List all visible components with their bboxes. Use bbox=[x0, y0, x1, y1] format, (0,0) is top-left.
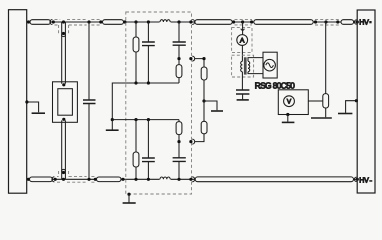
connector dot: HV lead lower bbox=[62, 171, 65, 174]
ammeter P1 bbox=[237, 35, 248, 46]
junction: top bus / HV lead bbox=[62, 20, 65, 23]
wire: filter column x179 lower bbox=[178, 120, 180, 180]
connector dot bbox=[314, 20, 317, 23]
ground G8 bbox=[282, 121, 295, 123]
oscillograph box bbox=[263, 52, 277, 78]
connector arc into enclosure bbox=[241, 29, 244, 31]
junction: R2 left bbox=[99, 20, 102, 23]
wire: ammeter to transformer bbox=[241, 45, 243, 61]
junction: top bus at supply bbox=[27, 20, 30, 23]
junction: bottom bus x179 bbox=[177, 178, 180, 181]
wire: cap to ground bbox=[242, 94, 244, 99]
junction: R2b right bbox=[121, 178, 124, 181]
wire: x204 column top bbox=[195, 59, 204, 101]
wire: supply ground tap bbox=[27, 102, 39, 112]
junction: rail x136 bbox=[134, 81, 137, 84]
junction: enclosure ground bbox=[127, 193, 130, 196]
junction: bottom bus x136 bbox=[134, 178, 137, 181]
junction: R3 right bbox=[232, 20, 235, 23]
shield (dashed) over ammeter tap bbox=[235, 19, 253, 25]
wire: secondary to oscillograph bbox=[248, 58, 263, 74]
junction: voltmeter ground bbox=[286, 113, 289, 116]
resistor R1b (bottom-left) bbox=[30, 177, 53, 182]
shield (dashed) top-right bbox=[315, 19, 341, 25]
voltmeter P2 bbox=[284, 96, 295, 107]
ground G7 bbox=[237, 99, 249, 101]
wire: ammeter drop bbox=[242, 22, 244, 35]
transformer T1 core bbox=[244, 57, 247, 74]
transformer T1 secondary bbox=[248, 61, 250, 72]
junction: tank wall bbox=[355, 99, 358, 102]
junction: top bus x136 bbox=[134, 20, 137, 23]
surge arrester inner body bbox=[58, 89, 73, 116]
HV measuring lead (double wire, upper) bbox=[62, 22, 66, 84]
surge arrester outer body bbox=[53, 82, 78, 123]
junction: arrester top bbox=[62, 83, 65, 86]
EMI filter enclosure (dashed) bbox=[126, 12, 192, 194]
resistor R9 (divider) bbox=[323, 94, 329, 108]
resistor Rd (filter, lower) bbox=[176, 122, 182, 135]
svg-text:A: A bbox=[240, 37, 245, 44]
junction: bottom bus x148 bbox=[147, 178, 150, 181]
ground G2 bbox=[106, 129, 119, 131]
inductor L1 (top bus) bbox=[160, 20, 171, 23]
wire: filter column x179 upper bbox=[178, 22, 180, 83]
wire: x204 ground branch bbox=[204, 101, 217, 110]
wire: enclosure ground stem bbox=[128, 194, 130, 202]
ground G4 bbox=[211, 110, 223, 112]
inductor L2 (bottom bus) bbox=[160, 177, 171, 180]
junction: top bus x179 bbox=[177, 20, 180, 23]
wire: bottom bus bbox=[27, 178, 358, 180]
wire: lower rail bbox=[112, 119, 179, 121]
resistor R2 (top) bbox=[103, 20, 124, 25]
transformer T1 primary bbox=[241, 61, 243, 72]
HV tank box (right) bbox=[357, 10, 375, 193]
ground G1 bbox=[32, 112, 45, 114]
capacitor C2 bbox=[236, 90, 249, 94]
connector: top-left shield plug bbox=[50, 20, 53, 25]
connector: filter exit top bus bbox=[192, 20, 195, 25]
connector dot bbox=[52, 20, 55, 23]
oscillograph dial bbox=[264, 59, 276, 71]
resistor R8 bbox=[201, 121, 207, 134]
wire: top bus bbox=[27, 21, 358, 23]
resistor Rc (filter, lower) bbox=[133, 152, 139, 167]
junction: divider tap bbox=[324, 20, 327, 23]
ground G6 bbox=[338, 113, 352, 115]
connector: filter exit bottom bus bbox=[192, 177, 195, 182]
junction: x204 top bbox=[202, 57, 205, 60]
resistor Ra (filter, upper) bbox=[133, 37, 139, 52]
svg-text:HV: HV bbox=[359, 177, 369, 184]
junction: bottom bus / HV lead bbox=[62, 178, 65, 181]
resistor R1 (top-left) bbox=[30, 20, 51, 25]
junction: R2 right / filter entry bbox=[123, 20, 126, 23]
connector: HV- plug bbox=[354, 177, 356, 181]
junction: top bus x148 bbox=[147, 20, 150, 23]
connector dot bbox=[189, 57, 192, 60]
resistor R7 bbox=[201, 67, 207, 80]
connector: bottom-left shield plug bbox=[52, 177, 55, 182]
resistor Rb (filter, upper) bbox=[176, 65, 182, 78]
wire: tank ground tap bbox=[346, 101, 358, 113]
junction: R2b left bbox=[94, 178, 97, 181]
connector: HV+ plug bbox=[354, 20, 356, 24]
voltmeter box bbox=[278, 90, 308, 115]
enclosure (dashed): ammeter bbox=[232, 28, 252, 53]
shield (dashed) around top-left bus bbox=[55, 19, 101, 33]
junction: lower rail x136 bbox=[134, 118, 137, 121]
wire: ground stem x112 bbox=[111, 120, 113, 130]
wire: filter column Cc lower bbox=[147, 120, 149, 180]
HV supply box (left) bbox=[9, 10, 27, 194]
junction: x204 mid bbox=[202, 99, 205, 102]
capacitor Cb (filter, upper) bbox=[173, 42, 186, 45]
junction: supply tap bbox=[25, 100, 28, 103]
connector dot bbox=[336, 20, 339, 23]
svg-text:HV: HV bbox=[359, 19, 369, 26]
HV measuring lead (double wire, lower) bbox=[62, 120, 66, 179]
wire: filter column Ra upper bbox=[135, 22, 137, 83]
connector: x204 lower plug bbox=[192, 139, 195, 144]
junction: x179 lower tap bbox=[177, 140, 180, 143]
capacitor Ca (filter, upper) bbox=[142, 42, 155, 46]
wire: voltmeter to divider bbox=[308, 100, 323, 102]
wire: filter column Rc lower bbox=[135, 120, 137, 180]
junction: lower rail x148 bbox=[147, 118, 150, 121]
connector: x204 upper plug bbox=[192, 56, 195, 61]
svg-text:V: V bbox=[287, 98, 292, 105]
capacitor C1 bbox=[83, 100, 96, 104]
wire: upper rail bbox=[112, 83, 179, 120]
junction: bottom bus / cap bbox=[87, 178, 90, 181]
junction: arrester bottom bbox=[62, 118, 65, 121]
resistor R2b (bottom) bbox=[97, 177, 122, 182]
resistor R3 (top) bbox=[195, 20, 232, 25]
wire: voltmeter ground stem bbox=[287, 115, 289, 122]
capacitor Cc (filter, lower) bbox=[142, 158, 155, 162]
wire: x204 column bottom bbox=[195, 101, 204, 142]
resistor R5 (top) bbox=[341, 20, 354, 25]
resistor R4 (long, top) bbox=[254, 20, 313, 25]
wire: filter column Ca upper bbox=[147, 22, 149, 83]
connector dot bbox=[189, 140, 192, 143]
junction: rails common bbox=[111, 118, 114, 121]
connector dot bbox=[189, 178, 192, 181]
junction: x179 upper tap bbox=[177, 57, 180, 60]
connector dot bbox=[356, 178, 359, 181]
connector dot: HV lead through shield bbox=[62, 32, 65, 35]
connector dot bottom-left bbox=[54, 178, 57, 181]
junction: rail x148 bbox=[147, 81, 150, 84]
wire: primary down bbox=[241, 72, 243, 90]
junction: top bus / smoothing cap bbox=[87, 20, 90, 23]
wire: divider column bbox=[325, 22, 327, 117]
connector dot bbox=[356, 20, 359, 23]
shield (dashed) around bottom-left bus bbox=[57, 171, 95, 182]
junction: ammeter tap bbox=[241, 20, 244, 23]
wire: smoothing cap column bbox=[88, 22, 90, 179]
ground G3 bbox=[123, 202, 136, 204]
junction: bottom bus at supply bbox=[27, 178, 30, 181]
ground G5 bbox=[311, 117, 332, 119]
connector dot bbox=[189, 20, 192, 23]
capacitor Cd (filter, lower) bbox=[173, 158, 186, 162]
resistor R6 (long, bottom) bbox=[195, 177, 353, 182]
enclosure (dashed): transformer bbox=[232, 55, 254, 77]
sine mark bbox=[266, 63, 274, 68]
junction: R4 left bbox=[250, 20, 253, 23]
